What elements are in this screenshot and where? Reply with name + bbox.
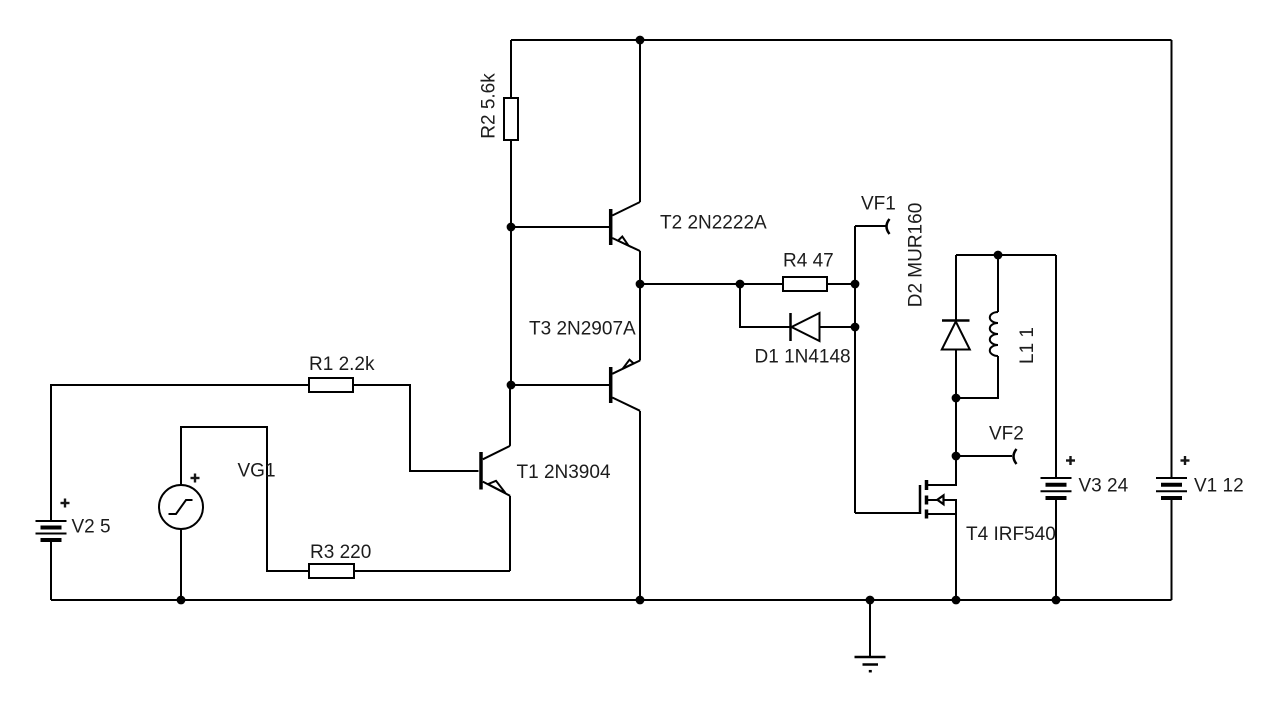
junction node R4 left / D1 branch [736,280,745,289]
battery V3 [1041,478,1072,498]
wire L1 top stub [997,255,999,312]
svg-text:T4 IRF540: T4 IRF540 [966,524,1056,545]
MOSFET T4 source lead [928,513,956,515]
MOSFET T4 body lead [928,500,956,514]
inductor L1 coil [990,312,998,356]
junction node B1 (R2 / T2 base) [507,223,516,232]
diode D2 cathode bar [942,319,970,322]
wire V3 top vertical [1055,255,1057,478]
junction node E (T2/T3 emitters) [636,280,645,289]
wire VF1 probe stub [855,225,886,227]
transistor T2 base bar [609,209,613,245]
svg-text:VF2: VF2 [989,424,1024,445]
wire bottom rail [51,599,1172,601]
wire R3 right to T1 emitter [354,570,510,572]
svg-text:R4 47: R4 47 [783,251,834,272]
transistor T2 emitter diagonal [612,238,640,251]
junction node T4 source bottom rail [952,596,961,605]
wire right vertical V1 bottom [1171,499,1173,601]
ground bar 2 [863,663,879,666]
wire R4 right to node F [827,283,855,285]
ground bar 3 [869,670,872,673]
source VG1 waveform [169,500,193,514]
svg-text:L1 1: L1 1 [1017,327,1038,364]
resistor R2 [504,98,518,140]
diode D1 triangle [792,313,820,341]
junction node F (D1 cathode) [851,323,860,332]
junction node VG1 bottom rail [177,596,186,605]
wire L1 top rail [956,254,1056,256]
diode D2 triangle [942,322,970,350]
svg-text:V1 12: V1 12 [1194,476,1244,497]
wire D2 bottom to drain node [955,350,957,485]
MOSFET T4 channel segment top [925,480,929,490]
resistor R1 [309,378,353,392]
transistor T1 emitter arrow [488,481,506,493]
transistor T2 collector diagonal [612,202,640,216]
source VG1 plus sign [191,474,200,483]
probe VF1 arc [887,219,890,234]
svg-text:D1 1N4148: D1 1N4148 [755,347,851,368]
wire T1 emitter vertical [509,496,511,571]
transistor T1 base bar [479,452,483,490]
MOSFET T4 channel segment middle [925,496,929,505]
wire T2 collector vertical [639,40,641,202]
diode D1 cathode bar [789,313,792,341]
junction node VF2 / drain [952,452,961,461]
battery V2 plus sign [61,499,70,508]
junction node ground [866,596,875,605]
junction node V3 bottom rail [1052,596,1061,605]
wire left vertical V2 bottom [50,540,52,601]
wire T4 source vertical [955,514,957,600]
wire D1 cathode to node F [820,326,856,328]
wire R2 bottom to node B1 [510,140,512,227]
MOSFET T4 channel segment bottom [925,510,929,519]
junction node L1 bottom / D2 [952,394,961,403]
wire T3 collector vertical [639,411,641,600]
wire top rail [511,39,1172,41]
wire D2 top [955,255,957,320]
wire left vertical V2 top [51,385,309,521]
svg-text:V2 5: V2 5 [72,517,111,538]
svg-text:R3 220: R3 220 [310,542,371,563]
wire V3 bottom vertical [1055,499,1057,601]
wire VG1 bottom [180,529,182,600]
junction node L1 top [994,251,1003,260]
svg-text:V3 24: V3 24 [1079,476,1129,497]
transistor T3 collector diagonal [612,398,640,411]
transistor T3 emitter diagonal [612,361,640,374]
svg-text:VF1: VF1 [861,194,896,215]
probe VF2 arc [1014,449,1017,464]
wire T2 emitter vertical [639,251,641,284]
battery V3 plus sign [1066,456,1075,465]
resistor R4 [783,277,827,291]
wire T2 base [511,226,609,228]
svg-text:R2 5.6k: R2 5.6k [479,73,500,139]
junction node top rail / T2 collector [636,36,645,45]
wire VF2 probe stub [956,455,1012,457]
resistor R3 [309,564,354,578]
junction node T3 collector bottom rail [636,596,645,605]
svg-text:T3 2N2907A: T3 2N2907A [529,319,636,340]
svg-text:T1 2N3904: T1 2N3904 [517,462,611,483]
svg-text:R1 2.2k: R1 2.2k [309,354,375,375]
svg-text:VG1: VG1 [238,461,276,482]
transistor T1 emitter diagonal [483,482,510,496]
wire R1 right to T1 base [353,385,479,471]
wire gate horizontal [855,512,919,514]
MOSFET T4 gate bar [919,485,922,514]
transistor T1 collector diagonal [483,446,510,459]
battery V2 [36,521,67,540]
wire node B1 to node B2 [510,227,512,385]
junction node B2 (T3 base / T1 collector) [507,381,516,390]
svg-text:T2 2N2222A: T2 2N2222A [660,213,767,234]
MOSFET T4 body arrow [937,495,943,504]
source VG1 circle [159,485,203,529]
transistor T2 emitter arrow [618,237,629,246]
wire node E to R4 left [640,283,783,285]
wire node F vertical (VF1 to gate) [854,226,856,513]
MOSFET T4 drain lead [928,456,956,485]
battery V1 plus sign [1181,456,1190,465]
junction node F (R4 right) [851,280,860,289]
wire T3 emitter vertical [639,284,641,361]
wire L1 bottom stub [956,356,998,398]
svg-text:D2 MUR160: D2 MUR160 [906,203,927,308]
wire R2 top [510,40,512,98]
wire right vertical V1 top [1171,40,1173,478]
ground bar 1 [855,656,886,659]
battery V1 [1156,478,1187,498]
transistor T3 emitter arrow (PNP, points toward base) [623,360,634,369]
transistor T3 base bar [609,367,613,403]
wire D1 anode branch [740,284,790,327]
ground stem [869,600,871,657]
wire VG1 top to R3 left [181,427,309,571]
wire T3 base [511,384,609,386]
wire T1 collector vertical [509,385,511,446]
